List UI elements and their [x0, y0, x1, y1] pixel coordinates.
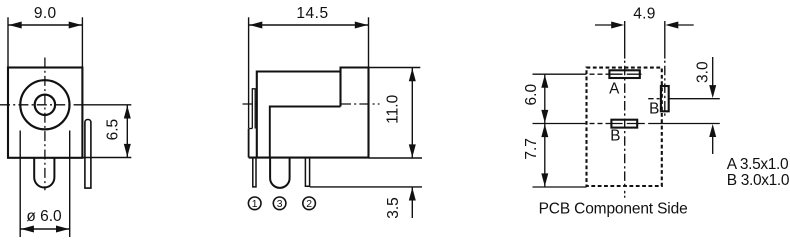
- svg-text:B 3.0x1.0: B 3.0x1.0: [727, 172, 790, 189]
- svg-text:9.0: 9.0: [34, 5, 57, 22]
- svg-text:A 3.5x1.0: A 3.5x1.0: [727, 156, 789, 173]
- svg-text:3: 3: [277, 199, 283, 210]
- svg-text:PCB Component Side: PCB Component Side: [539, 200, 688, 217]
- svg-text:7.7: 7.7: [523, 138, 540, 160]
- svg-text:14.5: 14.5: [296, 5, 328, 22]
- svg-text:11.0: 11.0: [385, 94, 402, 123]
- svg-text:1: 1: [252, 199, 258, 210]
- svg-text:B: B: [610, 127, 620, 144]
- svg-text:3.5: 3.5: [385, 197, 402, 219]
- svg-text:6.0: 6.0: [523, 84, 540, 106]
- svg-text:4.9: 4.9: [633, 5, 655, 22]
- svg-text:B: B: [649, 100, 659, 117]
- svg-text:2: 2: [306, 199, 312, 210]
- svg-text:3.0: 3.0: [695, 61, 712, 83]
- svg-text:A: A: [609, 80, 620, 97]
- svg-text:6.5: 6.5: [105, 119, 122, 141]
- svg-text:ø 6.0: ø 6.0: [26, 208, 62, 225]
